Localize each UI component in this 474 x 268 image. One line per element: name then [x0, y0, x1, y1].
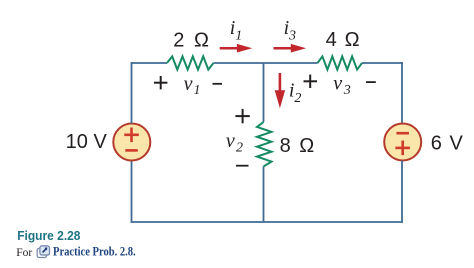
voltage source 10V circle: [113, 124, 150, 161]
wire left upper segment: [131, 62, 133, 124]
svg-text:1: 1: [194, 83, 201, 98]
wire top-left segment: [132, 62, 168, 64]
v1 plus sign: [154, 76, 167, 89]
6V plus symbol: [395, 147, 410, 150]
wire middle upper segment: [263, 63, 265, 122]
svg-text:3: 3: [343, 83, 351, 98]
svg-text:For: For: [16, 247, 32, 259]
wire right upper segment: [401, 62, 403, 124]
svg-text:Figure 2.28: Figure 2.28: [17, 228, 80, 243]
svg-text:2 Ω: 2 Ω: [173, 30, 211, 52]
10V plus symbol: [124, 134, 139, 137]
svg-text:8 Ω: 8 Ω: [280, 135, 316, 157]
v1 minus sign: [213, 83, 223, 85]
resistor R 2ohm zigzag: [167, 56, 214, 69]
wire bottom segment: [131, 221, 403, 223]
svg-text:3: 3: [288, 28, 296, 43]
wire middle lower segment: [263, 167, 265, 223]
resistor R 8ohm zigzag: [257, 122, 272, 167]
voltage source 6V circle: [384, 124, 421, 161]
6V minus symbol: [396, 132, 409, 135]
wire top-middle segment: [214, 62, 318, 64]
svg-text:2: 2: [294, 91, 301, 106]
current arrow i1: [220, 47, 240, 50]
current arrow i2: [279, 73, 282, 93]
wire top-right segment: [362, 62, 403, 64]
v3 minus sign: [366, 81, 376, 83]
svg-text:2: 2: [236, 141, 243, 156]
wire right lower segment: [401, 161, 403, 223]
svg-text:v: v: [333, 73, 342, 95]
current arrow i3: [274, 47, 294, 50]
10V minus symbol: [125, 149, 138, 152]
svg-text:v: v: [226, 130, 235, 152]
resistor R 4ohm zigzag: [318, 56, 363, 69]
v3 plus sign: [304, 75, 318, 88]
svg-text:v: v: [184, 73, 193, 95]
svg-text:10 V: 10 V: [66, 131, 108, 153]
svg-text:1: 1: [235, 28, 242, 43]
svg-text:4 Ω: 4 Ω: [326, 29, 361, 51]
v2 plus sign: [235, 109, 249, 123]
interactive icon: [37, 246, 49, 258]
v2 minus sign: [236, 165, 249, 167]
svg-text:Practice Prob. 2.8.: Practice Prob. 2.8.: [53, 244, 136, 259]
svg-text:6 V: 6 V: [431, 133, 464, 155]
wire left lower segment: [131, 161, 133, 223]
